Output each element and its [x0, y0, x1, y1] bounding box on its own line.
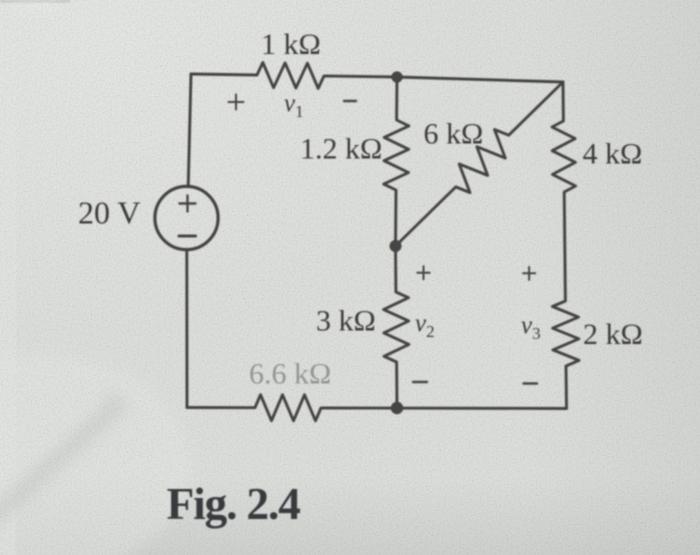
source minus sign: [179, 235, 196, 238]
plus sign v1: [229, 95, 244, 110]
voltage source 20V circle: [155, 186, 218, 249]
svg-text:2 kΩ: 2 kΩ: [583, 318, 643, 351]
node C bottom: [391, 402, 403, 414]
svg-text:20 V: 20 V: [78, 195, 141, 231]
source plus sign: [180, 196, 196, 212]
minus sign v3: [524, 382, 538, 384]
wire left vertical bottom: [185, 250, 188, 408]
node B middle: [390, 240, 402, 252]
svg-text:1 kΩ: 1 kΩ: [261, 28, 321, 61]
plus sign v2: [417, 266, 429, 279]
minus sign v1: [344, 100, 356, 102]
resistor R 4kohm and R 2kohm right branch: [552, 82, 579, 408]
svg-text:3 kΩ: 3 kΩ: [316, 305, 376, 338]
svg-text:6.6 kΩ: 6.6 kΩ: [249, 358, 331, 391]
minus sign v2: [413, 381, 427, 383]
resistor R 1.2kohm middle branch: [384, 77, 409, 246]
wire top right: [397, 77, 563, 82]
plus sign v3: [523, 267, 535, 280]
svg-text:1.2 kΩ: 1.2 kΩ: [300, 133, 382, 166]
node A top: [391, 71, 402, 82]
wire left vertical top: [188, 74, 191, 187]
svg-text:Fig. 2.4: Fig. 2.4: [167, 478, 301, 529]
svg-text:4 kΩ: 4 kΩ: [583, 138, 643, 171]
resistor R 6.6kohm bottom wire: [187, 395, 567, 421]
resistor R 3kohm middle lower branch: [384, 246, 409, 408]
svg-text:6 kΩ: 6 kΩ: [424, 118, 484, 151]
resistor R 1kohm top wire: [191, 63, 397, 89]
resistor R 6kohm diagonal: [396, 82, 564, 246]
